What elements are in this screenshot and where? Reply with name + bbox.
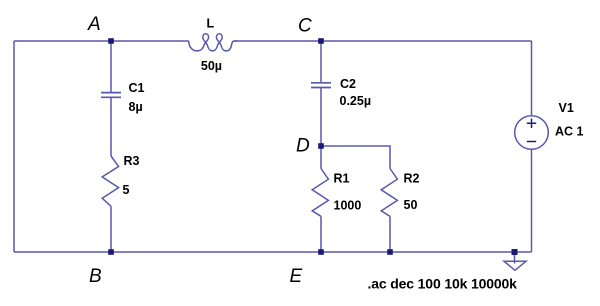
svg-text:B: B xyxy=(89,266,102,287)
resistor R3 zigzag xyxy=(102,156,118,206)
ground triangle xyxy=(504,261,526,270)
wire top left segment A to inductor xyxy=(14,34,548,271)
junction node C xyxy=(318,38,324,44)
voltage source V1 circle xyxy=(515,116,549,150)
svg-text:50µ: 50µ xyxy=(201,59,222,73)
svg-text:1000: 1000 xyxy=(334,198,362,212)
wire R3 to B xyxy=(110,206,112,252)
svg-text:E: E xyxy=(290,266,303,287)
junction ground xyxy=(512,249,518,255)
svg-text:C1: C1 xyxy=(129,81,145,95)
wire R2 to bottom xyxy=(389,216,391,252)
wire C2 bottom to D and R1 xyxy=(320,88,322,169)
junction node D xyxy=(318,143,324,149)
svg-text:C: C xyxy=(298,16,312,37)
capacitor C2 plates xyxy=(311,82,331,84)
junction node A xyxy=(108,38,517,255)
resistor R1 zigzag xyxy=(312,169,328,217)
svg-text:D: D xyxy=(296,136,310,157)
wire A to C1 top xyxy=(110,41,112,92)
junction node B xyxy=(108,249,114,255)
wire C1 bottom to R3 xyxy=(110,98,112,156)
wire right vertical bottom V1 xyxy=(531,149,533,252)
V1 minus sign xyxy=(527,141,536,143)
svg-text:50: 50 xyxy=(404,198,418,212)
svg-text:.ac dec 100 10k 10000k: .ac dec 100 10k 10000k xyxy=(368,276,518,292)
wire C to C2 top xyxy=(320,41,322,82)
svg-text:R2: R2 xyxy=(404,172,420,186)
wire top right segment inductor to V1 corner xyxy=(234,40,532,42)
svg-text:V1: V1 xyxy=(559,101,574,115)
svg-text:L: L xyxy=(207,16,215,30)
svg-text:5: 5 xyxy=(123,183,130,197)
wire right vertical top V1 xyxy=(531,41,533,116)
V1 plus sign xyxy=(527,119,536,142)
svg-text:AC 1: AC 1 xyxy=(555,125,584,139)
svg-text:8µ: 8µ xyxy=(129,100,143,114)
svg-text:R1: R1 xyxy=(334,172,350,186)
wire bottom xyxy=(14,251,532,253)
svg-text:A: A xyxy=(87,14,101,35)
ground stub xyxy=(514,252,516,264)
wire R1 to E xyxy=(320,216,322,252)
junction node E xyxy=(318,249,324,255)
svg-text:0.25µ: 0.25µ xyxy=(340,94,372,108)
junction R2 bottom xyxy=(387,249,393,255)
resistor R2 zigzag xyxy=(381,169,397,217)
wire left vertical xyxy=(13,41,15,252)
wire D to R2 branch xyxy=(321,146,390,169)
svg-text:R3: R3 xyxy=(124,154,140,168)
inductor L coil xyxy=(189,34,237,51)
svg-text:C2: C2 xyxy=(340,77,356,91)
capacitor C1 plates xyxy=(101,92,121,94)
